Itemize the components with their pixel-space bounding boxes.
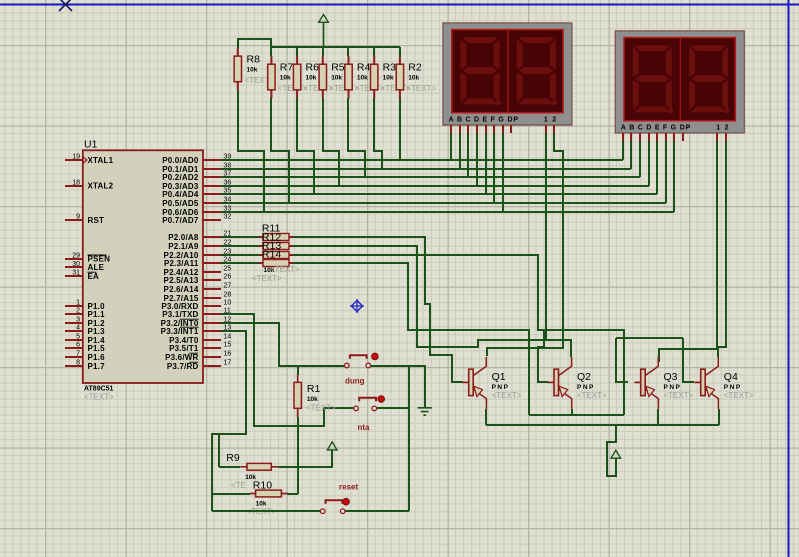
wire U1 pin 12 to dung button xyxy=(221,323,344,366)
svg-text:<TEXT>: <TEXT> xyxy=(492,391,522,400)
wire emitter rail A xyxy=(529,414,624,416)
svg-text:P2.5/A13: P2.5/A13 xyxy=(164,276,199,285)
svg-text:Q2: Q2 xyxy=(577,371,591,383)
svg-text:nta: nta xyxy=(358,423,371,432)
wire segment bus row pin 35 xyxy=(221,193,657,195)
DS1 pin stubs xyxy=(451,125,554,133)
svg-text:Q3: Q3 xyxy=(664,371,678,383)
svg-text:<TEXT>: <TEXT> xyxy=(306,403,336,412)
wire Q1 collector to DS1 pin 2 xyxy=(487,133,563,356)
svg-text:P2.3/A11: P2.3/A11 xyxy=(164,259,199,268)
wire segment bus row pin 39 xyxy=(221,159,623,161)
svg-text:Q4: Q4 xyxy=(724,371,738,383)
transistor Q1 PNP xyxy=(463,357,522,409)
svg-text:R8: R8 xyxy=(247,53,261,65)
svg-text:P3.3/INT1: P3.3/INT1 xyxy=(161,327,199,336)
svg-text:3: 3 xyxy=(76,317,80,324)
svg-text:10k: 10k xyxy=(383,74,394,81)
svg-text:R1: R1 xyxy=(307,383,321,395)
svg-text:1: 1 xyxy=(76,300,80,307)
wire net pack row23 to Q2 base xyxy=(293,255,548,382)
svg-text:U1: U1 xyxy=(84,139,98,151)
wire U1 pin 11 to nta button xyxy=(221,314,324,426)
svg-text:<TEXT>: <TEXT> xyxy=(406,84,436,93)
wire R7 to pin 34 xyxy=(271,98,289,203)
marker origin (blue diamond) xyxy=(350,299,364,313)
svg-text:P3.7/RD: P3.7/RD xyxy=(167,362,199,371)
wire net pack row24 to emitter rail xyxy=(293,263,529,415)
svg-text:R9: R9 xyxy=(226,452,240,464)
wire Q1 emitter to rail B xyxy=(485,409,487,425)
svg-text:PNP: PNP xyxy=(664,384,682,391)
svg-text:ABCDEFG: ABCDEFG xyxy=(449,116,508,123)
wire reset row left xyxy=(212,510,320,512)
resistor R6 10k (vertical) xyxy=(293,56,333,98)
wire branch to emitter rail right xyxy=(544,330,624,415)
svg-text:2: 2 xyxy=(76,308,80,315)
wire R5 to pin 36 xyxy=(323,98,339,186)
wire DS2 pin 1 to Q3 collector xyxy=(659,141,717,362)
wire R8 top to VCC bus xyxy=(238,39,271,48)
svg-text:P2.1/A9: P2.1/A9 xyxy=(168,242,199,251)
resistor R1 10k (vertical) xyxy=(294,375,336,417)
resistor R10 10k (horizontal) xyxy=(246,480,287,516)
wire R2 to pin 39 xyxy=(399,98,401,160)
wire R10 right to R1 branch xyxy=(287,493,298,495)
svg-text:P2.6/A14: P2.6/A14 xyxy=(164,285,199,294)
svg-text:P1.3: P1.3 xyxy=(88,327,106,336)
svg-text:PNP: PNP xyxy=(724,384,742,391)
transistor Q2 PNP xyxy=(548,357,607,409)
svg-text:10: 10 xyxy=(224,300,232,307)
wire R6 to pin 35 xyxy=(297,98,314,194)
svg-text:15: 15 xyxy=(224,342,232,349)
svg-text:ABCDEFG: ABCDEFG xyxy=(621,124,680,131)
svg-text:P0.2/AD2: P0.2/AD2 xyxy=(162,173,199,182)
svg-text:R14: R14 xyxy=(262,249,281,261)
svg-text:PNP: PNP xyxy=(492,384,510,391)
svg-text:19: 19 xyxy=(72,154,80,161)
wire R7..R2 tops to VCC bus xyxy=(270,47,272,56)
wire rail B to power flag xyxy=(607,425,616,476)
wire Q4 emitter to rail B xyxy=(718,409,720,425)
svg-text:RST: RST xyxy=(88,216,105,225)
svg-text:<TEXT>: <TEXT> xyxy=(252,274,282,283)
svg-text:DP: DP xyxy=(680,124,691,131)
transistor Q3 PNP xyxy=(635,357,694,409)
wire emitter rail B xyxy=(486,424,719,426)
U1 right pin stubs and numbers xyxy=(161,154,232,371)
DS2 pin stubs xyxy=(623,133,726,141)
svg-text:12: 12 xyxy=(716,124,733,131)
svg-text:reset: reset xyxy=(339,483,358,492)
svg-text:P1.6: P1.6 xyxy=(88,353,106,362)
wire net pack row21 to Q1 base xyxy=(293,237,463,382)
svg-text:<TEXT>: <TEXT> xyxy=(577,391,607,400)
svg-text:14: 14 xyxy=(224,334,232,341)
svg-text:<TEXT>: <TEXT> xyxy=(270,265,300,274)
IC U1 AT89C51 microcontroller body xyxy=(83,139,203,402)
svg-text:P1.7: P1.7 xyxy=(88,362,106,371)
svg-text:P0.0/AD0: P0.0/AD0 xyxy=(162,156,199,165)
svg-text:P0.7/AD7: P0.7/AD7 xyxy=(162,216,199,225)
wire segment bus row pin 34 xyxy=(221,202,666,204)
transistor Q4 PNP xyxy=(695,357,754,409)
wire to Q4 base xyxy=(683,338,694,382)
svg-text:P1.5: P1.5 xyxy=(88,344,106,353)
push button reset xyxy=(320,483,358,514)
wire DS2 pin 2 to Q4 collector xyxy=(718,141,726,357)
wire to nta left contact xyxy=(324,407,354,409)
wire segment bus row pin 38 xyxy=(221,168,631,170)
resistor R9 10k (horizontal) xyxy=(226,452,278,490)
wire R1 bottom to R10 xyxy=(297,417,299,494)
svg-text:10k: 10k xyxy=(306,74,317,81)
wire R9 right to power flag xyxy=(278,450,332,467)
svg-text:10k: 10k xyxy=(247,66,258,73)
wires DS2 segment pins A-G down to bus rows xyxy=(622,141,624,160)
wire net pack row22 to Q2 collector xyxy=(293,246,571,357)
svg-text:12: 12 xyxy=(544,116,561,123)
7-segment display DS2 (2-digit, common) xyxy=(615,31,744,133)
svg-text:XTAL2: XTAL2 xyxy=(88,182,114,191)
resistor R4 10k (vertical) xyxy=(345,56,385,98)
U1 left pin stubs and numbers xyxy=(65,154,114,371)
svg-text:Q1: Q1 xyxy=(492,371,506,383)
svg-text:29: 29 xyxy=(72,252,80,259)
svg-text:R7: R7 xyxy=(280,61,294,73)
svg-text:R2: R2 xyxy=(408,61,422,73)
svg-text:17: 17 xyxy=(224,360,232,367)
svg-text:P0.4/AD4: P0.4/AD4 xyxy=(162,190,199,199)
svg-text:9: 9 xyxy=(76,214,80,221)
svg-text:dung: dung xyxy=(345,377,365,386)
wire Q3 emitter to rail B xyxy=(657,409,659,425)
svg-text:30: 30 xyxy=(72,261,80,268)
svg-text:R10: R10 xyxy=(253,480,272,492)
wire R4 to pin 37 xyxy=(348,98,365,177)
wire segment bus row pin 37 xyxy=(221,176,640,178)
wire DS1 pin 1 down xyxy=(545,133,547,340)
svg-text:<TEXT>: <TEXT> xyxy=(84,393,114,402)
7-segment display DS1 (2-digit, common) xyxy=(443,23,572,125)
svg-text:7: 7 xyxy=(76,351,80,358)
svg-text:R5: R5 xyxy=(331,61,345,73)
svg-text:P2.0/A8: P2.0/A8 xyxy=(168,233,199,242)
wires DS1 segment pins A-G down to bus rows xyxy=(450,133,452,160)
svg-text:P3.1/TXD: P3.1/TXD xyxy=(162,310,198,319)
wire nta right contact xyxy=(377,407,409,409)
svg-text:<TEXT>: <TEXT> xyxy=(724,391,754,400)
wire VCC bus above resistors xyxy=(271,46,400,48)
wire dung row to R1 top xyxy=(297,366,299,375)
svg-text:EA: EA xyxy=(88,272,100,281)
svg-text:18: 18 xyxy=(72,179,80,186)
resistor R8 10k (vertical) xyxy=(234,48,275,90)
wires U1 pins 21-24 to resistor pack xyxy=(221,236,259,238)
wire reset row right xyxy=(345,510,409,512)
power flag (mid, below transistors) xyxy=(611,450,621,458)
wire branch to R9 xyxy=(218,434,220,467)
resistor R11 network (R11-R14) 10k xyxy=(252,223,300,283)
svg-text:31: 31 xyxy=(72,270,80,277)
svg-text:DP: DP xyxy=(508,116,519,123)
svg-text:8: 8 xyxy=(76,360,80,367)
push button dung xyxy=(345,353,379,386)
svg-text:AT89C51: AT89C51 xyxy=(84,386,114,393)
svg-text:PNP: PNP xyxy=(577,384,595,391)
svg-text:R3: R3 xyxy=(383,61,397,73)
resistor R5 10k (vertical) xyxy=(319,56,359,98)
svg-text:10k: 10k xyxy=(357,74,368,81)
wire Q3/Q4 base bus xyxy=(616,337,683,339)
svg-text:<TEXT>: <TEXT> xyxy=(664,391,694,400)
svg-text:25: 25 xyxy=(224,266,232,273)
svg-text:32: 32 xyxy=(224,214,232,221)
svg-text:P3.5/T1: P3.5/T1 xyxy=(169,344,199,353)
svg-text:<TE: <TE xyxy=(231,481,246,490)
power flag (R9) xyxy=(327,442,337,450)
wire Q2 emitter to rail A xyxy=(571,409,573,415)
svg-text:4: 4 xyxy=(76,325,80,332)
wire to R9 left xyxy=(219,466,240,468)
svg-text:P0.5/AD5: P0.5/AD5 xyxy=(162,199,199,208)
svg-text:10k: 10k xyxy=(280,74,291,81)
svg-text:R6: R6 xyxy=(306,61,320,73)
wire dung row down to reset row xyxy=(408,366,410,511)
svg-text:10k: 10k xyxy=(307,396,318,403)
wire segment bus row pin 36 xyxy=(221,185,649,187)
wire to R10 left xyxy=(211,493,250,495)
svg-text:28: 28 xyxy=(224,292,232,299)
svg-text:5: 5 xyxy=(76,334,80,341)
wire U1 pin 13 down to reset row xyxy=(212,331,246,511)
svg-text:R4: R4 xyxy=(357,61,371,73)
svg-text:27: 27 xyxy=(224,283,232,290)
resistor R7 10k (vertical) xyxy=(268,56,308,98)
svg-text:XTAL1: XTAL1 xyxy=(88,156,114,165)
push button nta xyxy=(354,396,385,432)
wire segment bus row pin 33 xyxy=(221,211,674,213)
power flag (top, VCC arrow) xyxy=(319,15,329,48)
marker X (sheet corner) xyxy=(59,0,72,11)
svg-text:10k: 10k xyxy=(331,74,342,81)
wire R3 to pin 38 xyxy=(374,98,382,169)
svg-text:10k: 10k xyxy=(408,74,419,81)
svg-text:P1.1: P1.1 xyxy=(88,310,106,319)
resistor R2 10k (vertical) xyxy=(396,56,436,98)
svg-text:6: 6 xyxy=(76,342,80,349)
svg-text:P3.6/WR: P3.6/WR xyxy=(165,353,198,362)
wire to Q3 base xyxy=(616,338,628,382)
pin XTAL1 clock mark xyxy=(83,157,87,164)
svg-text:26: 26 xyxy=(224,274,232,281)
resistor R3 10k (vertical) xyxy=(371,56,411,98)
wire dung button to ground xyxy=(371,366,425,408)
ground symbol xyxy=(418,408,432,415)
wire R8 to pin 33 xyxy=(238,90,264,212)
svg-text:16: 16 xyxy=(224,351,232,358)
